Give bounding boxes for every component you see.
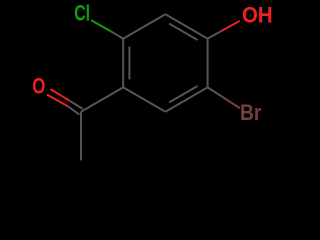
wire: ring bond TL-BL inner (double): [128, 47, 130, 80]
svg-text:O: O: [32, 74, 45, 99]
wire: ring bond BR-TR: [207, 39, 209, 88]
bond C2-Cl dark third: [111, 31, 124, 39]
bond C(carbonyl)-CH3: [80, 112, 82, 161]
wire: ring bond TR-TOP inner (double): [169, 24, 197, 40]
svg-text:OH: OH: [242, 3, 273, 28]
wire: ring bond TR-TOP outer: [165, 14, 207, 38]
bond C4-OH dark third: [208, 31, 222, 39]
svg-text:Br: Br: [240, 100, 262, 125]
C=O double bond lower line dark third: [68, 106, 79, 114]
wire: ring bond TL-BL outer: [122, 39, 124, 88]
C=O double bond lower line red part: [47, 95, 68, 107]
wire: ring bond BL-BOT: [123, 87, 165, 111]
svg-text:Cl: Cl: [74, 0, 90, 25]
C=O double bond upper line dark third: [69, 101, 82, 109]
bond C4-OH red part: [222, 21, 240, 31]
wire: ring bond TOP-TL: [123, 14, 165, 38]
bond C5-Br dark third: [208, 87, 222, 96]
wire: ring bond BOT-BR inner (double): [169, 86, 197, 102]
bond C1-C(carbonyl): [81, 87, 123, 111]
wire: ring bond BOT-BR outer: [165, 87, 207, 111]
bond C5-Br brown part: [221, 96, 240, 108]
bond C2-Cl green part: [91, 20, 110, 31]
C=O double bond upper line red part: [51, 89, 70, 101]
